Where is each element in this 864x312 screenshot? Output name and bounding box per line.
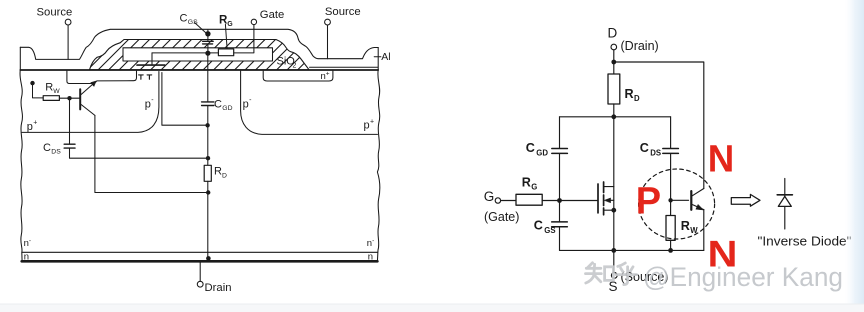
- svg-text:C: C: [640, 141, 649, 155]
- svg-text:N: N: [708, 139, 735, 181]
- svg-text:Gate: Gate: [260, 9, 285, 21]
- svg-text:W: W: [690, 226, 698, 235]
- svg-text:+: +: [326, 71, 330, 78]
- svg-text:G: G: [227, 21, 233, 28]
- svg-text:GD: GD: [222, 105, 232, 112]
- svg-text:(Drain): (Drain): [621, 39, 659, 53]
- svg-text:-: -: [372, 237, 374, 244]
- svg-text:D: D: [222, 172, 227, 179]
- svg-text:p: p: [243, 99, 249, 111]
- svg-text:P: P: [636, 181, 661, 223]
- svg-text:2: 2: [293, 63, 297, 70]
- svg-text:GS: GS: [544, 226, 555, 235]
- svg-text:-: -: [29, 238, 31, 245]
- svg-text:+: +: [33, 120, 37, 127]
- svg-text:R: R: [522, 175, 531, 189]
- svg-text:R: R: [625, 87, 634, 101]
- svg-text:-: -: [151, 97, 154, 104]
- svg-text:n: n: [368, 251, 373, 262]
- svg-text:"Inverse Diode": "Inverse Diode": [758, 235, 852, 249]
- svg-text:D: D: [608, 26, 618, 41]
- svg-text:p: p: [145, 98, 151, 110]
- svg-text:p: p: [27, 121, 33, 133]
- svg-text:C: C: [43, 142, 51, 154]
- svg-text:W: W: [53, 88, 60, 95]
- svg-text:Source: Source: [37, 6, 73, 18]
- svg-text:C: C: [526, 141, 535, 155]
- svg-text:C: C: [180, 13, 188, 25]
- svg-text:@Engineer Kang: @Engineer Kang: [643, 262, 843, 292]
- svg-text:Drain: Drain: [205, 282, 232, 294]
- svg-text:G: G: [531, 182, 537, 191]
- svg-text:GD: GD: [536, 148, 548, 157]
- svg-text:DS: DS: [650, 148, 661, 157]
- svg-text:+: +: [370, 118, 374, 125]
- svg-text:C: C: [214, 99, 222, 111]
- svg-text:R: R: [214, 166, 222, 178]
- svg-text:R: R: [681, 219, 690, 233]
- svg-text:p: p: [364, 120, 370, 132]
- svg-text:DS: DS: [51, 149, 61, 156]
- svg-text:GS: GS: [188, 19, 198, 26]
- svg-text:(Gate): (Gate): [484, 210, 519, 224]
- svg-text:D: D: [634, 94, 640, 103]
- svg-text:C: C: [534, 219, 543, 233]
- svg-text:-: -: [249, 97, 252, 104]
- svg-text:Source: Source: [325, 6, 361, 18]
- svg-text:Al: Al: [381, 51, 390, 63]
- svg-text:n: n: [24, 252, 29, 263]
- svg-text:R: R: [45, 82, 53, 94]
- svg-text:G: G: [484, 189, 495, 204]
- svg-text:N: N: [708, 234, 738, 275]
